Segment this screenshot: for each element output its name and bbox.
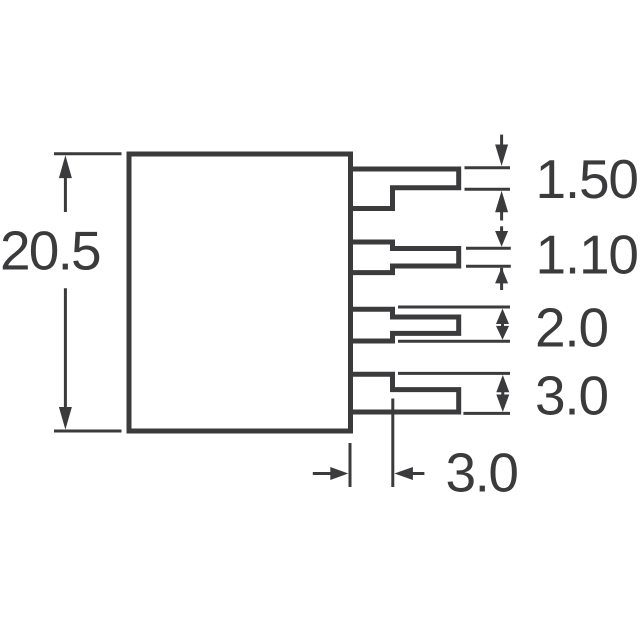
svg-text:3.0: 3.0	[446, 442, 518, 504]
svg-text:20.5: 20.5	[0, 220, 100, 282]
svg-text:1.50: 1.50	[536, 148, 638, 210]
svg-text:2.0: 2.0	[535, 297, 608, 359]
svg-text:3.0: 3.0	[535, 365, 608, 427]
svg-text:1.10: 1.10	[536, 224, 638, 286]
